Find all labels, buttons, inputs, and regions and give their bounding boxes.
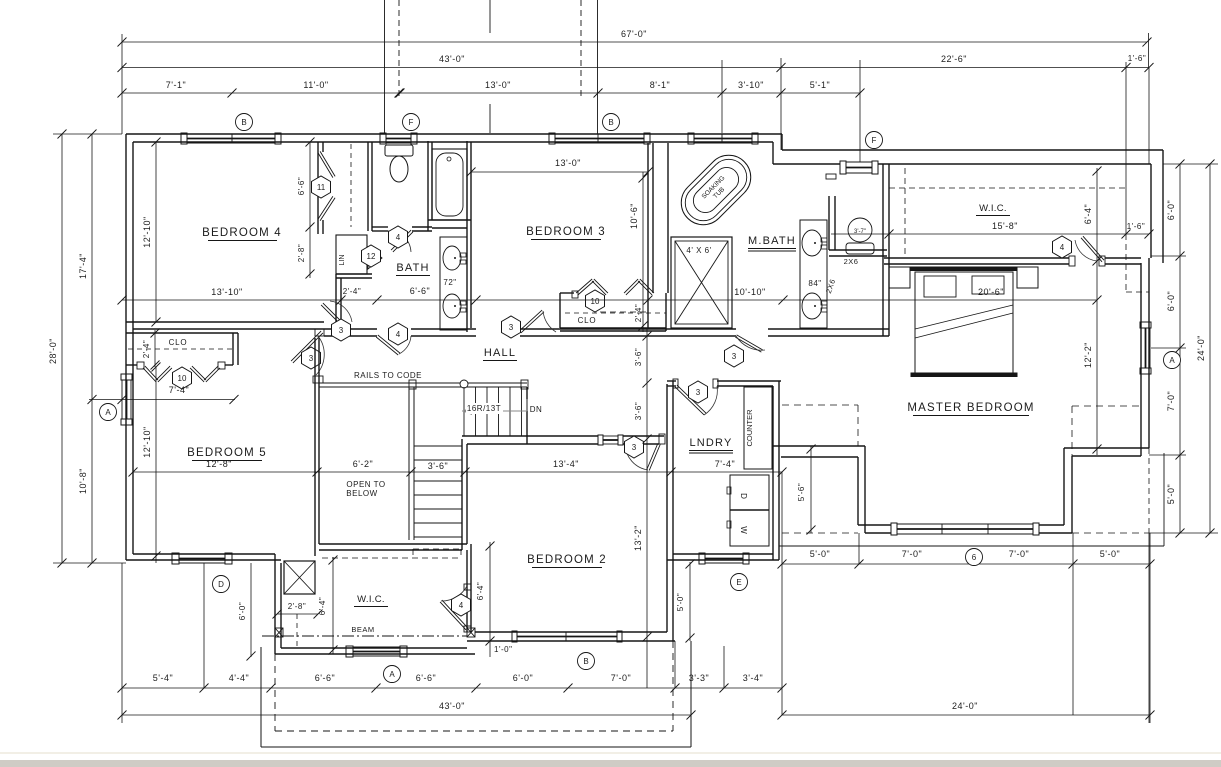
bedroom 2 / laundry west wall xyxy=(666,384,668,632)
bedroom 2 north wall xyxy=(462,435,598,437)
svg-text:B: B xyxy=(608,118,613,127)
bath sink 1 xyxy=(443,246,461,270)
svg-text:4: 4 xyxy=(396,233,401,242)
circle F mbath wing xyxy=(866,132,883,149)
svg-text:LNDRY: LNDRY xyxy=(689,437,732,449)
bed headboard xyxy=(911,267,1017,271)
hexagon 12 linen xyxy=(362,245,381,267)
circle B top left xyxy=(236,114,253,131)
svg-text:24'-0": 24'-0" xyxy=(1196,335,1206,361)
projection line x=490 upper xyxy=(489,0,491,33)
bedroom 5 closet bifolds xyxy=(143,368,156,382)
dim line y=564 master (5'-0" 7'-0" 7'-0" 5'-0") xyxy=(782,563,1150,565)
alcove west wall xyxy=(335,274,337,330)
extension line x=1148 top right xyxy=(1148,33,1150,68)
svg-text:BATH: BATH xyxy=(396,262,429,274)
beam post west xyxy=(275,628,283,637)
dim 2'-8" wic bottom xyxy=(277,613,318,615)
svg-text:A: A xyxy=(1169,356,1175,365)
svg-text:BEAM: BEAM xyxy=(351,625,374,634)
window D bedroom 5 xyxy=(172,553,179,564)
door 4 water closet xyxy=(391,230,411,250)
stair lower treads xyxy=(414,445,462,447)
svg-text:12'-10": 12'-10" xyxy=(142,216,152,247)
svg-text:24'-0": 24'-0" xyxy=(952,701,978,711)
stair direction arrow xyxy=(462,410,527,412)
dim 6'-4" wic bottom west xyxy=(332,557,334,654)
window B bedroom 3 xyxy=(549,133,555,144)
dim 12'-10" bedroom5 xyxy=(155,367,157,563)
dim line 43'-0" / 22'-6" / 1'-6" (top) xyxy=(122,67,1149,69)
bath vanity xyxy=(440,237,467,330)
master bay east wall xyxy=(1063,448,1065,525)
bathtub xyxy=(432,149,467,220)
window B bedroom 4 xyxy=(181,133,187,144)
hexagon 4 water closet door xyxy=(389,226,408,248)
page border bottom band xyxy=(0,760,1221,767)
dim ext x=724 xyxy=(723,646,725,688)
dim 6'-0" below bedroom5 xyxy=(250,563,252,657)
dim line y=472 (12'-8" 6'-2" 3'-6" 13'-4" 7'-4") xyxy=(133,471,782,473)
projection line solid x=597 xyxy=(597,0,599,134)
vertical x=1149 xyxy=(1148,68,1150,165)
svg-text:1'-6": 1'-6" xyxy=(1127,222,1145,231)
svg-text:4: 4 xyxy=(459,601,464,610)
svg-text:3'-3": 3'-3" xyxy=(689,673,709,683)
bedroom 3 closet rod dashed xyxy=(565,312,666,314)
dim 2'-4" bedroom5 closet xyxy=(154,330,156,367)
dashed roof west xyxy=(782,404,858,406)
pillow west xyxy=(924,276,956,297)
svg-text:43'-0": 43'-0" xyxy=(439,54,465,64)
svg-text:M.BATH: M.BATH xyxy=(748,235,796,247)
window A bedroom 5 left wall xyxy=(121,374,132,380)
page border bottom light xyxy=(0,752,1221,754)
dim line 67'-0" (top) xyxy=(122,41,1147,43)
window bedroom 2 south xyxy=(512,631,517,642)
svg-text:6'-6": 6'-6" xyxy=(315,673,335,683)
dim ext x=859 xyxy=(858,533,860,564)
circle A left wall xyxy=(100,404,117,421)
svg-text:17'-4": 17'-4" xyxy=(78,253,88,279)
window m.bath xyxy=(688,133,694,144)
svg-text:6: 6 xyxy=(972,553,977,562)
beam centerline xyxy=(262,635,467,637)
bedroom 5 closet rod dashed xyxy=(128,348,232,350)
hexagon 10 bedroom3 closet xyxy=(586,290,605,312)
extension line x=722 xyxy=(721,60,723,133)
svg-text:3'-6": 3'-6" xyxy=(634,402,643,420)
tub room south wall xyxy=(428,219,471,221)
nightstand east xyxy=(1017,267,1038,288)
svg-text:5'-0": 5'-0" xyxy=(1166,484,1176,504)
window master east wall xyxy=(1140,322,1151,328)
hexagon 10 bedroom5 closet xyxy=(173,367,192,389)
svg-text:6'-0": 6'-0" xyxy=(238,602,247,620)
dim ext x=647 bottom xyxy=(646,641,648,688)
w.i.c. door jamb caps xyxy=(1069,256,1075,266)
bedroom 4 closet east wall xyxy=(367,142,369,231)
svg-text:F: F xyxy=(872,136,877,145)
projection line dashed x=581 xyxy=(580,0,582,97)
dim line right (6'-0" 6'-0" 7'-0" 5'-0") xyxy=(1179,164,1181,533)
extension line x=1126 xyxy=(1125,62,1127,234)
svg-text:W: W xyxy=(739,526,748,534)
dim 5'-6" master nook xyxy=(810,446,812,533)
svg-text:3: 3 xyxy=(696,388,701,397)
laundry jamb caps xyxy=(673,379,678,388)
extension line y=533 right xyxy=(1150,532,1218,534)
bedroom 3 closet east wall xyxy=(665,293,667,331)
linen closet xyxy=(336,235,367,274)
svg-text:A: A xyxy=(105,408,111,417)
wic dashed shelf xyxy=(322,557,461,559)
beam post east xyxy=(467,628,475,637)
hexagon 4 bath door xyxy=(389,323,408,345)
svg-text:5'-0": 5'-0" xyxy=(810,549,830,559)
door 3 bedroom 2 entry xyxy=(647,443,658,469)
door 3 into bedroom 4 xyxy=(323,303,341,321)
door 3 master entry xyxy=(735,337,761,352)
dashed ext wic bottom xyxy=(296,614,298,649)
bed fold diagonal 1 xyxy=(915,305,1013,329)
svg-text:3: 3 xyxy=(339,326,344,335)
extension line y=455 right xyxy=(1149,454,1186,456)
wall step at x=781 xyxy=(781,134,783,150)
bedroom 2 west wall xyxy=(466,444,468,550)
master bed xyxy=(915,272,1013,373)
hexagon 3 alcove door xyxy=(332,319,351,341)
svg-text:DN: DN xyxy=(530,405,543,414)
mbath toilet xyxy=(848,218,872,242)
chase shaft with X xyxy=(284,561,315,594)
svg-text:A: A xyxy=(389,670,395,679)
dim line y=688 (5'-4" 4'-4" 6'-6" 6'-6" 6'-0" 7'-0" 3'-3" 3'-4") xyxy=(122,687,782,689)
exterior wall top inner xyxy=(133,141,773,143)
door 4 bedroom2/wic xyxy=(442,600,468,628)
mbath sink 2 xyxy=(802,293,822,319)
svg-text:5'-0": 5'-0" xyxy=(676,593,685,611)
dim ext x=122 bottom xyxy=(121,563,123,723)
dim 2'-4" mbath xyxy=(647,300,649,336)
svg-text:3: 3 xyxy=(732,352,737,361)
tub room west wall xyxy=(427,141,429,231)
svg-text:2'-4": 2'-4" xyxy=(634,304,643,322)
wic rod dashed xyxy=(904,168,906,258)
hexagon 4 wic master door xyxy=(1053,236,1072,258)
circle G master dim xyxy=(966,549,983,566)
svg-text:16R/13T: 16R/13T xyxy=(467,404,501,413)
stairwell west wall xyxy=(314,338,316,556)
master bay south wall east xyxy=(1039,524,1064,526)
svg-text:8'-1": 8'-1" xyxy=(650,80,670,90)
window laundry south xyxy=(699,553,705,564)
svg-text:15'-8": 15'-8" xyxy=(992,221,1018,231)
hexagon 11 bedroom4 closet xyxy=(312,176,331,198)
bedroom 5 closet south wall caps xyxy=(137,362,144,369)
svg-text:5'-6": 5'-6" xyxy=(797,483,806,501)
dashed line mbath left xyxy=(600,311,648,313)
bedroom 3 closet south wall xyxy=(560,327,666,329)
svg-text:6'-2": 6'-2" xyxy=(353,459,373,469)
hexagon 4 wic door xyxy=(452,594,471,616)
svg-text:84": 84" xyxy=(808,279,821,288)
bedroom 3 closet step xyxy=(560,292,574,294)
hexagon 3 laundry door xyxy=(689,381,708,403)
stair rail cap xyxy=(313,376,323,383)
dim 5'-0" porch xyxy=(689,562,691,641)
svg-text:RAILS TO CODE: RAILS TO CODE xyxy=(354,371,422,380)
door 3 bedroom 3 entry xyxy=(521,312,544,333)
wic dashed shelf box xyxy=(413,548,461,550)
dim line y=715 43'-0" xyxy=(122,714,691,716)
svg-text:E: E xyxy=(736,578,741,587)
svg-text:6'-0": 6'-0" xyxy=(1166,200,1176,220)
svg-text:13'-4": 13'-4" xyxy=(553,459,579,469)
railing at stair xyxy=(319,382,527,384)
svg-text:7'-0": 7'-0" xyxy=(1166,391,1176,411)
circle B top bedroom3 xyxy=(603,114,620,131)
w.i.c. master south wall xyxy=(884,257,1069,259)
extension line y=256 right xyxy=(1151,255,1186,257)
svg-text:7'-1": 7'-1" xyxy=(166,80,186,90)
svg-text:6'-4": 6'-4" xyxy=(318,597,327,615)
svg-text:22'-6": 22'-6" xyxy=(941,54,967,64)
bed footboard xyxy=(911,373,1017,377)
exterior wall left inner xyxy=(132,142,134,554)
master south-east wall xyxy=(1064,447,1149,449)
bedroom 4 closet bifold doors xyxy=(318,153,333,178)
svg-text:7'-0": 7'-0" xyxy=(902,549,922,559)
door 3 bedroom 5 entry xyxy=(291,331,321,361)
bedroom 4 south wall xyxy=(126,321,324,323)
linen door wedge xyxy=(368,247,382,269)
svg-text:1'-6": 1'-6" xyxy=(1128,54,1146,63)
svg-text:6'-4": 6'-4" xyxy=(476,582,485,600)
circle A bottom xyxy=(384,666,401,683)
svg-text:10: 10 xyxy=(178,374,187,383)
dim line 28'-0" (left) xyxy=(61,134,63,563)
window w.i.c. south xyxy=(346,646,353,657)
dim 7'-4" bedroom5 xyxy=(89,399,235,401)
svg-text:5'-1": 5'-1" xyxy=(810,80,830,90)
bedroom 4 east wall xyxy=(317,142,319,234)
svg-text:10'-8": 10'-8" xyxy=(78,468,88,494)
svg-text:BEDROOM 3: BEDROOM 3 xyxy=(526,226,606,238)
dim line y=715 24'-0" xyxy=(782,714,1150,716)
svg-text:10'-10": 10'-10" xyxy=(734,287,765,297)
dim line top details 7'-1" 11'-0" 13'-0" 8'-1" 3'-10" 5'-1" xyxy=(122,92,860,94)
master east wall xyxy=(1140,263,1142,456)
stair upper flight treads xyxy=(463,387,465,436)
dashed roof master bay xyxy=(782,532,858,534)
stair west rail xyxy=(408,387,410,540)
extension line y=563 left xyxy=(53,562,126,564)
nightstand west xyxy=(889,267,910,288)
projection line solid x=384 xyxy=(384,0,386,134)
svg-text:2'-8": 2'-8" xyxy=(288,602,306,611)
svg-text:7'-0": 7'-0" xyxy=(611,673,631,683)
dim ext x=675 bedroom2 xyxy=(674,641,676,688)
washer dryer box xyxy=(730,475,769,546)
bedroom 3 east wall (2x6) xyxy=(647,143,649,329)
svg-text:BELOW: BELOW xyxy=(346,489,377,498)
svg-text:3: 3 xyxy=(632,443,637,452)
circle A right xyxy=(1164,352,1181,369)
dim line right 24'-0" xyxy=(1209,164,1211,533)
bedroom 3 closet bifolds xyxy=(578,281,594,295)
laundry east wall xyxy=(772,386,774,560)
exterior wall top-right inner xyxy=(773,163,840,165)
m.bath east wall xyxy=(882,164,884,336)
hall north wall / bath south wall xyxy=(324,328,377,330)
water closet south wall xyxy=(372,226,388,228)
svg-text:4: 4 xyxy=(1060,243,1065,252)
svg-text:4: 4 xyxy=(396,330,401,339)
hexagon 3 bedroom5 door xyxy=(302,347,321,369)
wic shelf dashed xyxy=(889,187,1125,189)
svg-text:12: 12 xyxy=(367,252,376,261)
svg-text:6'-4": 6'-4" xyxy=(1083,204,1093,224)
dim 15'-8" / 1'-6" wic xyxy=(831,233,1149,235)
hexagon 3 bedroom2 door xyxy=(625,436,644,458)
svg-text:B: B xyxy=(583,657,588,666)
svg-text:4' X 6': 4' X 6' xyxy=(686,246,711,255)
dim ext x=782 xyxy=(781,472,783,715)
dim 6'-4" wic bottom east xyxy=(489,542,491,657)
svg-text:W.I.C.: W.I.C. xyxy=(979,203,1007,214)
master west bump wall xyxy=(773,445,865,447)
dim 6'-4" wic right xyxy=(1096,168,1098,263)
window F m.bath wing xyxy=(840,161,846,174)
w.i.c. west wall xyxy=(274,554,276,654)
svg-text:6'-0": 6'-0" xyxy=(1166,291,1176,311)
svg-text:3'-6": 3'-6" xyxy=(634,348,643,366)
svg-text:10'-6": 10'-6" xyxy=(629,203,639,229)
closet rod dashed bedroom4 xyxy=(350,144,352,227)
extension line x=860 (5'-1") xyxy=(859,60,861,162)
bath sink 2 xyxy=(443,294,461,318)
svg-text:11'-0": 11'-0" xyxy=(303,80,328,90)
dim 6'-6" 2'-8" closet xyxy=(309,142,311,278)
porch west wall xyxy=(260,647,262,747)
stair east wall xyxy=(461,439,463,550)
svg-text:BEDROOM 5: BEDROOM 5 xyxy=(187,447,267,459)
circle B bottom xyxy=(578,653,595,670)
extension line x=781 xyxy=(780,58,782,150)
bed fold diagonal 2 xyxy=(915,313,1013,338)
bedroom 5 south wall xyxy=(126,559,281,561)
svg-text:LIN: LIN xyxy=(339,255,346,266)
svg-text:20'-6": 20'-6" xyxy=(978,287,1004,297)
pillow east xyxy=(972,276,1004,294)
svg-text:7'-4": 7'-4" xyxy=(169,385,189,395)
stairwell south wall xyxy=(319,543,467,545)
dim ext x=1150 right xyxy=(1149,533,1151,723)
shower 4x6 xyxy=(671,237,732,328)
dim line 17'-4" / 10'-8" (left) xyxy=(91,134,93,563)
svg-text:W.I.C.: W.I.C. xyxy=(357,594,385,605)
svg-text:1'-0": 1'-0" xyxy=(494,645,512,654)
svg-text:12'-10": 12'-10" xyxy=(142,426,152,457)
svg-text:D: D xyxy=(218,580,224,589)
dim 3'-6" hall x2 xyxy=(646,336,648,381)
porch south wall xyxy=(261,746,691,748)
hexagon 3 master door xyxy=(725,345,744,367)
door 4 bath entry xyxy=(376,337,398,355)
door 4 wic master xyxy=(1083,236,1104,260)
svg-text:3: 3 xyxy=(509,323,514,332)
dim ext x=1073 xyxy=(1072,533,1074,715)
dashed overhang top right xyxy=(1125,234,1127,292)
svg-text:BEDROOM 4: BEDROOM 4 xyxy=(202,227,282,239)
extension line y=164 right xyxy=(1163,163,1218,165)
circle F top xyxy=(403,114,420,131)
circle D xyxy=(213,576,230,593)
dim 12'-10" bedroom4 xyxy=(155,142,157,322)
bedroom 5 closet north wall xyxy=(126,332,238,334)
master bay south wall west xyxy=(865,532,891,534)
svg-text:5'-0": 5'-0" xyxy=(1100,549,1120,559)
wd door bumps xyxy=(727,487,731,494)
svg-text:B: B xyxy=(241,118,246,127)
projection line dashed x=399 xyxy=(398,0,400,97)
exterior wall left outer xyxy=(125,134,127,560)
svg-text:4'-4": 4'-4" xyxy=(229,673,249,683)
laundry north wall xyxy=(667,380,676,382)
svg-text:13'-0": 13'-0" xyxy=(485,80,511,90)
hexagon 3 bedroom3 door xyxy=(502,316,521,338)
circle E xyxy=(731,574,748,591)
svg-text:CLO: CLO xyxy=(578,316,597,325)
rail posts xyxy=(409,380,416,389)
svg-text:2X6: 2X6 xyxy=(844,257,859,266)
wall below linen xyxy=(336,273,372,275)
svg-text:12'-2": 12'-2" xyxy=(1083,342,1093,368)
dashed roof east xyxy=(1072,405,1141,407)
svg-text:43'-0": 43'-0" xyxy=(439,701,465,711)
svg-text:6'-0": 6'-0" xyxy=(513,673,533,683)
svg-text:13'-10": 13'-10" xyxy=(211,287,242,297)
dim 10'-6" bedroom3 xyxy=(642,172,644,332)
svg-text:HALL: HALL xyxy=(484,347,516,359)
svg-text:5'-4": 5'-4" xyxy=(153,673,173,683)
extension line y=134 left xyxy=(53,133,122,135)
dim line y=300 (13'-10" 2'-4" 6'-6" 10'-10" 20'-6") xyxy=(122,299,1097,301)
extension line left top xyxy=(121,34,123,134)
svg-text:12'-8": 12'-8" xyxy=(206,459,232,469)
mbath wall notch xyxy=(826,174,836,179)
svg-text:F: F xyxy=(409,118,414,127)
svg-text:2'-4": 2'-4" xyxy=(142,340,151,358)
mbath wc south wall xyxy=(829,249,887,251)
bedroom 5 closet east step xyxy=(232,333,234,365)
w.i.c. south wall xyxy=(275,653,475,655)
svg-text:3: 3 xyxy=(309,354,314,363)
master bay west wall xyxy=(857,457,859,525)
soaking tub xyxy=(672,146,760,234)
svg-text:72": 72" xyxy=(443,278,456,287)
mbath wc partition xyxy=(828,196,830,250)
porch east wall xyxy=(690,641,692,747)
porch dashed outline xyxy=(274,654,276,731)
svg-text:67'-0": 67'-0" xyxy=(621,29,647,39)
laundry counter xyxy=(744,387,772,469)
window master bay xyxy=(891,523,897,535)
dim 12'-2" master xyxy=(1096,263,1098,455)
svg-text:7'-4": 7'-4" xyxy=(715,459,735,469)
exterior wall top outer (bedrooms 4/3, bath) xyxy=(126,133,782,135)
